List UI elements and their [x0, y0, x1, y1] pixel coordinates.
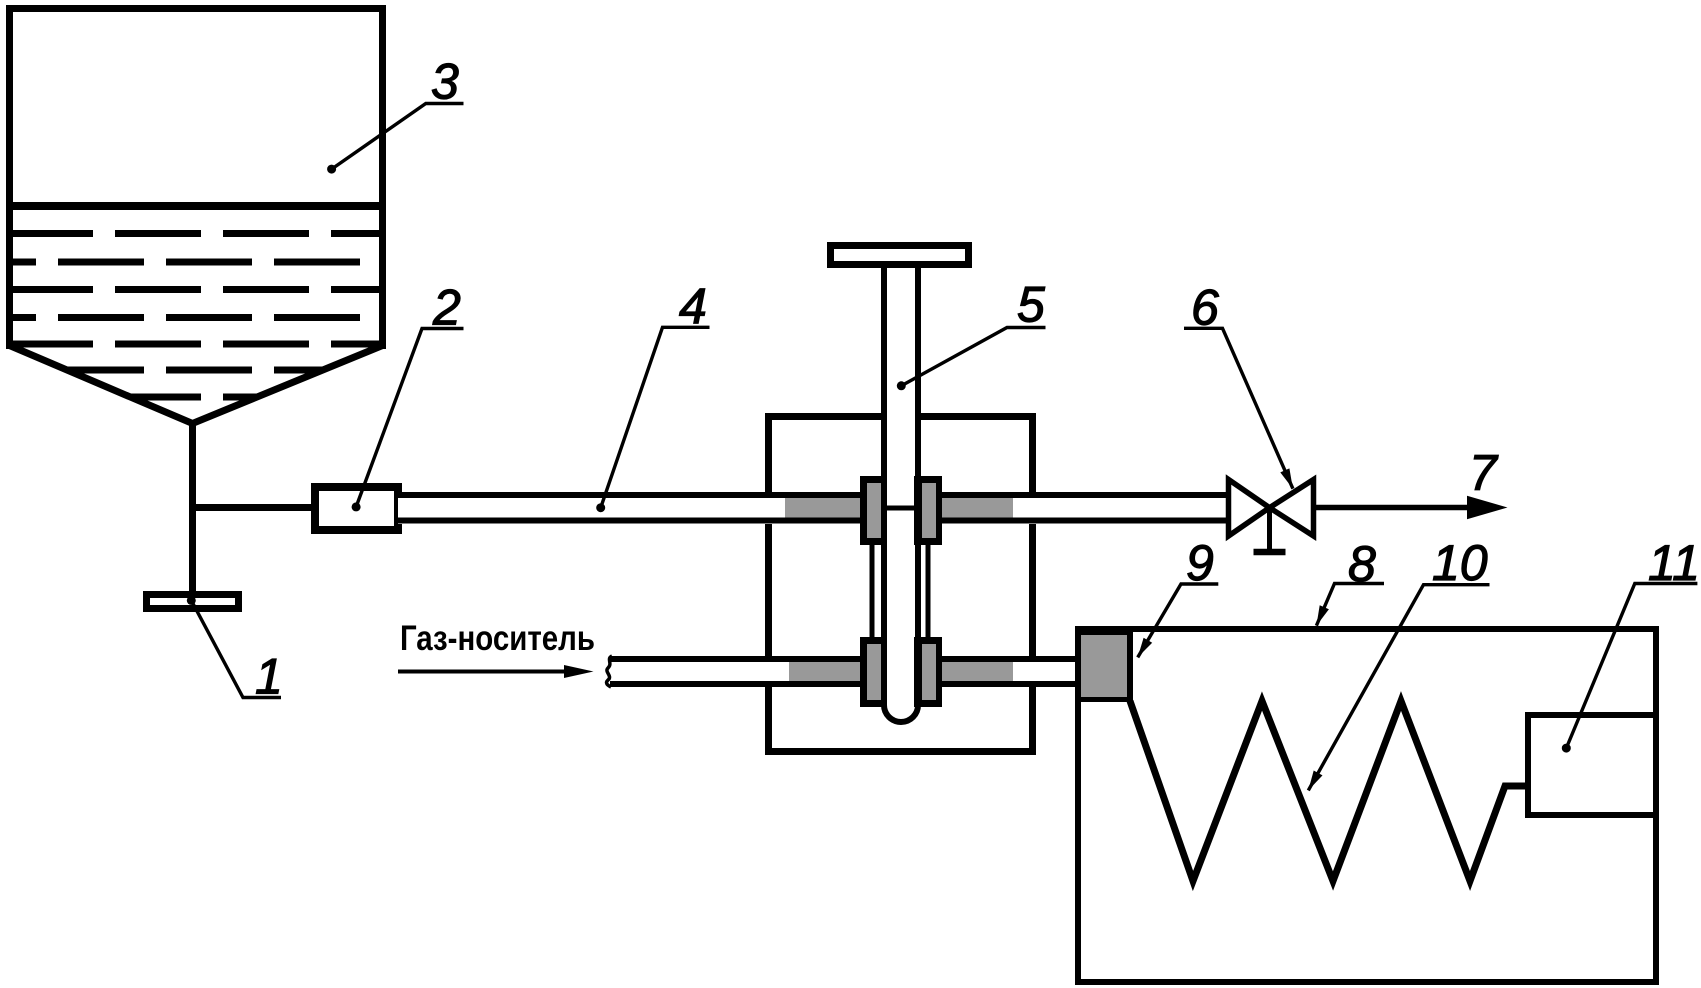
- doser 2: [315, 487, 398, 530]
- carrier gas pipe wall top: [610, 656, 1078, 662]
- leader 6 line: [1184, 328, 1293, 488]
- lower pipe gray filling left: [789, 662, 860, 681]
- leader 5 line: [901, 328, 1045, 386]
- seal 9 black border: [1075, 627, 1133, 702]
- leader 3 dot: [327, 165, 336, 174]
- leader 9 arrowhead: [1138, 638, 1153, 658]
- sample plug inside tube: [887, 506, 914, 511]
- carrier gas arrow shaft: [398, 670, 569, 674]
- svg-text:8: 8: [1348, 536, 1376, 592]
- injector body: [769, 417, 1033, 752]
- wire branch to doser 2: [189, 504, 315, 511]
- leader 5 dot: [897, 381, 906, 390]
- thermostat box 8: [1078, 629, 1656, 982]
- seal 9 gray core: [1081, 635, 1127, 697]
- vessel cone bottom: [10, 346, 383, 424]
- leader 4 dot: [596, 503, 605, 512]
- lower flange left black: [860, 637, 887, 707]
- lower flange right black: [914, 637, 942, 707]
- svg-text:9: 9: [1186, 535, 1214, 591]
- leader 2 line: [356, 329, 463, 507]
- carrier gas arrow head: [564, 665, 594, 678]
- liquid surface line: [6, 202, 386, 210]
- svg-text:2: 2: [432, 280, 461, 336]
- pipe 4 upper wall top: [398, 492, 1231, 498]
- leader 10 line: [1308, 585, 1489, 791]
- svg-text:1: 1: [255, 649, 283, 705]
- valve 6 bowtie left triangle: [1229, 480, 1270, 537]
- upper flange left black: [860, 476, 887, 545]
- svg-text:4: 4: [679, 279, 707, 335]
- leader 8 line: [1316, 584, 1384, 626]
- svg-text:11: 11: [1648, 535, 1700, 591]
- lower flange left gray core: [867, 644, 881, 700]
- outlet arrow 7 head: [1467, 496, 1508, 519]
- svg-text:7: 7: [1469, 445, 1499, 501]
- valve 6 foot: [1254, 549, 1286, 556]
- leader 10 arrowhead: [1308, 771, 1322, 791]
- leader 1 line: [191, 600, 281, 697]
- pipe 4 upper wall bottom: [398, 518, 1231, 524]
- valve 6 stem: [1267, 508, 1272, 551]
- leader 11 line: [1566, 584, 1697, 749]
- leader 2 dot: [352, 502, 361, 511]
- svg-text:3: 3: [431, 54, 459, 110]
- carrier gas pipe lower: interior: [610, 656, 1078, 687]
- leader 3 line: [332, 104, 464, 170]
- upper flange right black: [914, 476, 942, 545]
- plunger tube 5: walls: [884, 262, 918, 722]
- leader 8 arrowhead: [1316, 605, 1329, 625]
- lower pipe gray filling right: [942, 662, 1013, 681]
- upper flange left gray core: [867, 483, 881, 538]
- leader 6 arrowhead: [1280, 468, 1293, 488]
- cage rod right: [926, 540, 931, 640]
- pipe 4 upper: interior: [398, 492, 1231, 524]
- carrier gas pipe wall bottom: [610, 681, 1078, 687]
- svg-text:10: 10: [1432, 535, 1488, 591]
- svg-text:6: 6: [1191, 280, 1219, 336]
- outlet pipe from vessel: [189, 421, 196, 594]
- leader 9 line: [1138, 584, 1219, 657]
- svg-text:Газ-носитель: Газ-носитель: [400, 619, 595, 658]
- stopcock 1: [147, 595, 239, 609]
- valve 6 bowtie right triangle: [1270, 480, 1314, 537]
- vessel 3 walls and top: [10, 9, 383, 350]
- leader 4 line: [601, 327, 710, 507]
- detector 11 box: [1528, 715, 1656, 815]
- svg-text:5: 5: [1017, 277, 1045, 333]
- plunger tube 5: white body: [881, 262, 921, 725]
- outlet arrow 7 shaft: [1316, 505, 1471, 511]
- coil 10 zigzag: [1130, 701, 1528, 881]
- plunger handle bar: [831, 246, 969, 265]
- cage rod left: [870, 540, 875, 640]
- leader 1 dot: [187, 596, 196, 605]
- upper pipe gray filling left: [785, 498, 860, 518]
- upper pipe gray filling right: [942, 498, 1013, 518]
- lower flange right gray core: [922, 644, 936, 700]
- liquid hatching: [0, 234, 386, 398]
- leader 11 dot: [1562, 744, 1571, 753]
- upper flange right gray core: [922, 483, 936, 538]
- pipe broken-end squiggle: [607, 656, 612, 687]
